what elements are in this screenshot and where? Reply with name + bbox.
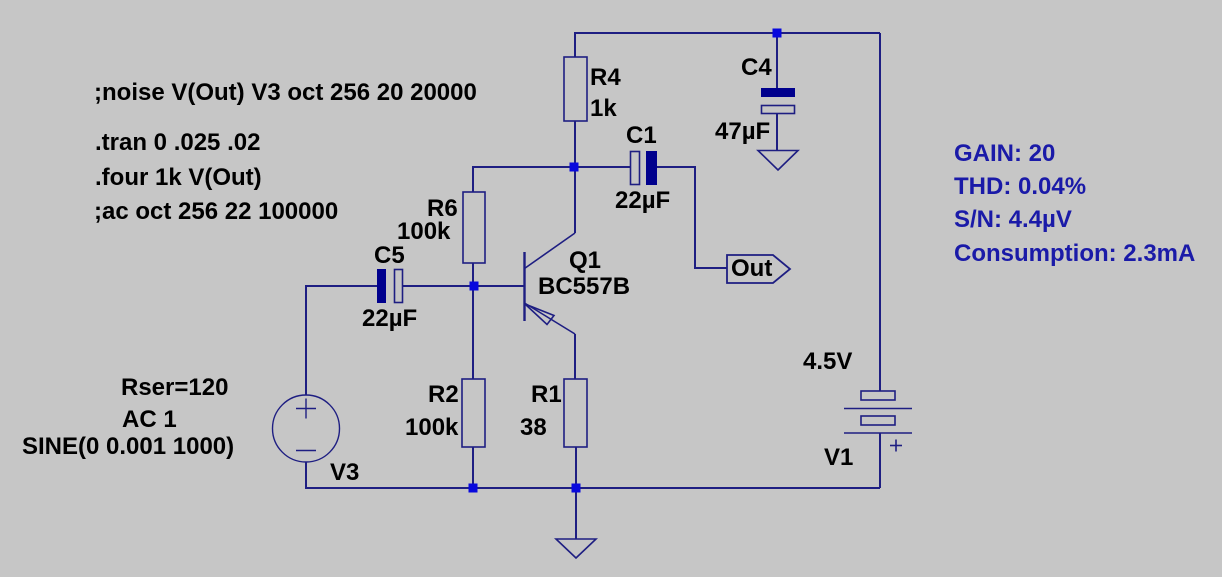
capacitor C4 [761,88,795,114]
svg-text:38: 38 [520,414,547,441]
svg-text:C4: C4 [741,54,772,81]
svg-text:THD: 0.04%: THD: 0.04% [954,173,1086,200]
svg-text:;ac oct 256 22 100000: ;ac oct 256 22 100000 [94,198,338,225]
svg-text:100k: 100k [405,414,459,441]
svg-text:.tran 0 .025 .02: .tran 0 .025 .02 [95,129,260,156]
wire base node to Q1 base [474,285,524,287]
wire Q1 collector up to node [574,167,576,233]
svg-text:R2: R2 [428,381,459,408]
wire C4 branch upper [776,33,778,88]
svg-text:Out: Out [731,255,772,282]
wire R1 bottom [575,447,577,488]
svg-text:47µF: 47µF [715,118,770,145]
svg-text:;noise V(Out) V3 oct 256 20 20: ;noise V(Out) V3 oct 256 20 20000 [94,79,477,106]
wire R4 bottom to node [574,121,576,167]
wire node to C1 left [574,166,630,168]
svg-text:C1: C1 [626,122,657,149]
resistor R2 [462,379,485,447]
node junction base / R6 / R2 / C5 [470,282,479,291]
svg-text:V1: V1 [824,444,853,471]
ground (C4) [758,151,798,171]
svg-text:AC 1: AC 1 [122,406,177,433]
wire top rail [575,33,880,57]
svg-text:Q1: Q1 [569,247,601,274]
transistor Q1 [525,233,576,334]
svg-text:100k: 100k [397,218,451,245]
wire R2 top to base node [472,286,474,379]
svg-text:Consumption: 2.3mA: Consumption: 2.3mA [954,240,1195,267]
capacitor C5 [377,269,403,303]
svg-text:SINE(0 0.001 1000): SINE(0 0.001 1000) [22,433,234,460]
svg-text:S/N: 4.4µV: S/N: 4.4µV [954,206,1072,233]
wire V3 top to C5 left [306,286,377,395]
node junction bottom rail / R1 / ground [572,484,581,493]
wire Q1 emitter down to R1 [574,334,576,379]
svg-text:C5: C5 [374,242,405,269]
svg-text:R1: R1 [531,381,562,408]
wire ground stem [575,488,577,539]
wire C5 right to base node [402,285,474,287]
node junction R4 / C1 / collector [570,163,579,172]
svg-text:22µF: 22µF [362,305,417,332]
ground (main) [556,539,596,558]
node junction top rail / C4 [773,29,782,38]
svg-text:V3: V3 [330,459,359,486]
wire bottom rail [473,487,880,489]
svg-text:.four 1k V(Out): .four 1k V(Out) [95,164,262,191]
node junction bottom rail / R2 [469,484,478,493]
svg-text:GAIN: 20: GAIN: 20 [954,140,1055,167]
wire R2 bottom [472,447,474,488]
wire C1 right to corner [657,167,727,268]
wire battery bottom to rail [879,433,881,488]
svg-text:BC557B: BC557B [538,273,630,300]
port Out [727,255,790,283]
wire R6 bottom to base node [472,263,474,286]
wire V3 bottom to rail [306,462,473,488]
svg-text:R4: R4 [590,64,621,91]
svg-text:1k: 1k [590,95,617,122]
resistor R4 [564,57,587,121]
wire right rail down to battery [879,33,881,391]
svg-text:Rser=120: Rser=120 [121,374,228,401]
wire node to R6 top [473,167,574,192]
resistor R1 [564,379,587,447]
voltage source V3 [273,395,340,462]
battery V1 [844,391,912,452]
capacitor C1 [631,151,658,185]
resistor R6 [463,192,485,263]
svg-text:4.5V: 4.5V [803,348,852,375]
svg-text:22µF: 22µF [615,187,670,214]
wire C4 branch lower [776,114,778,150]
